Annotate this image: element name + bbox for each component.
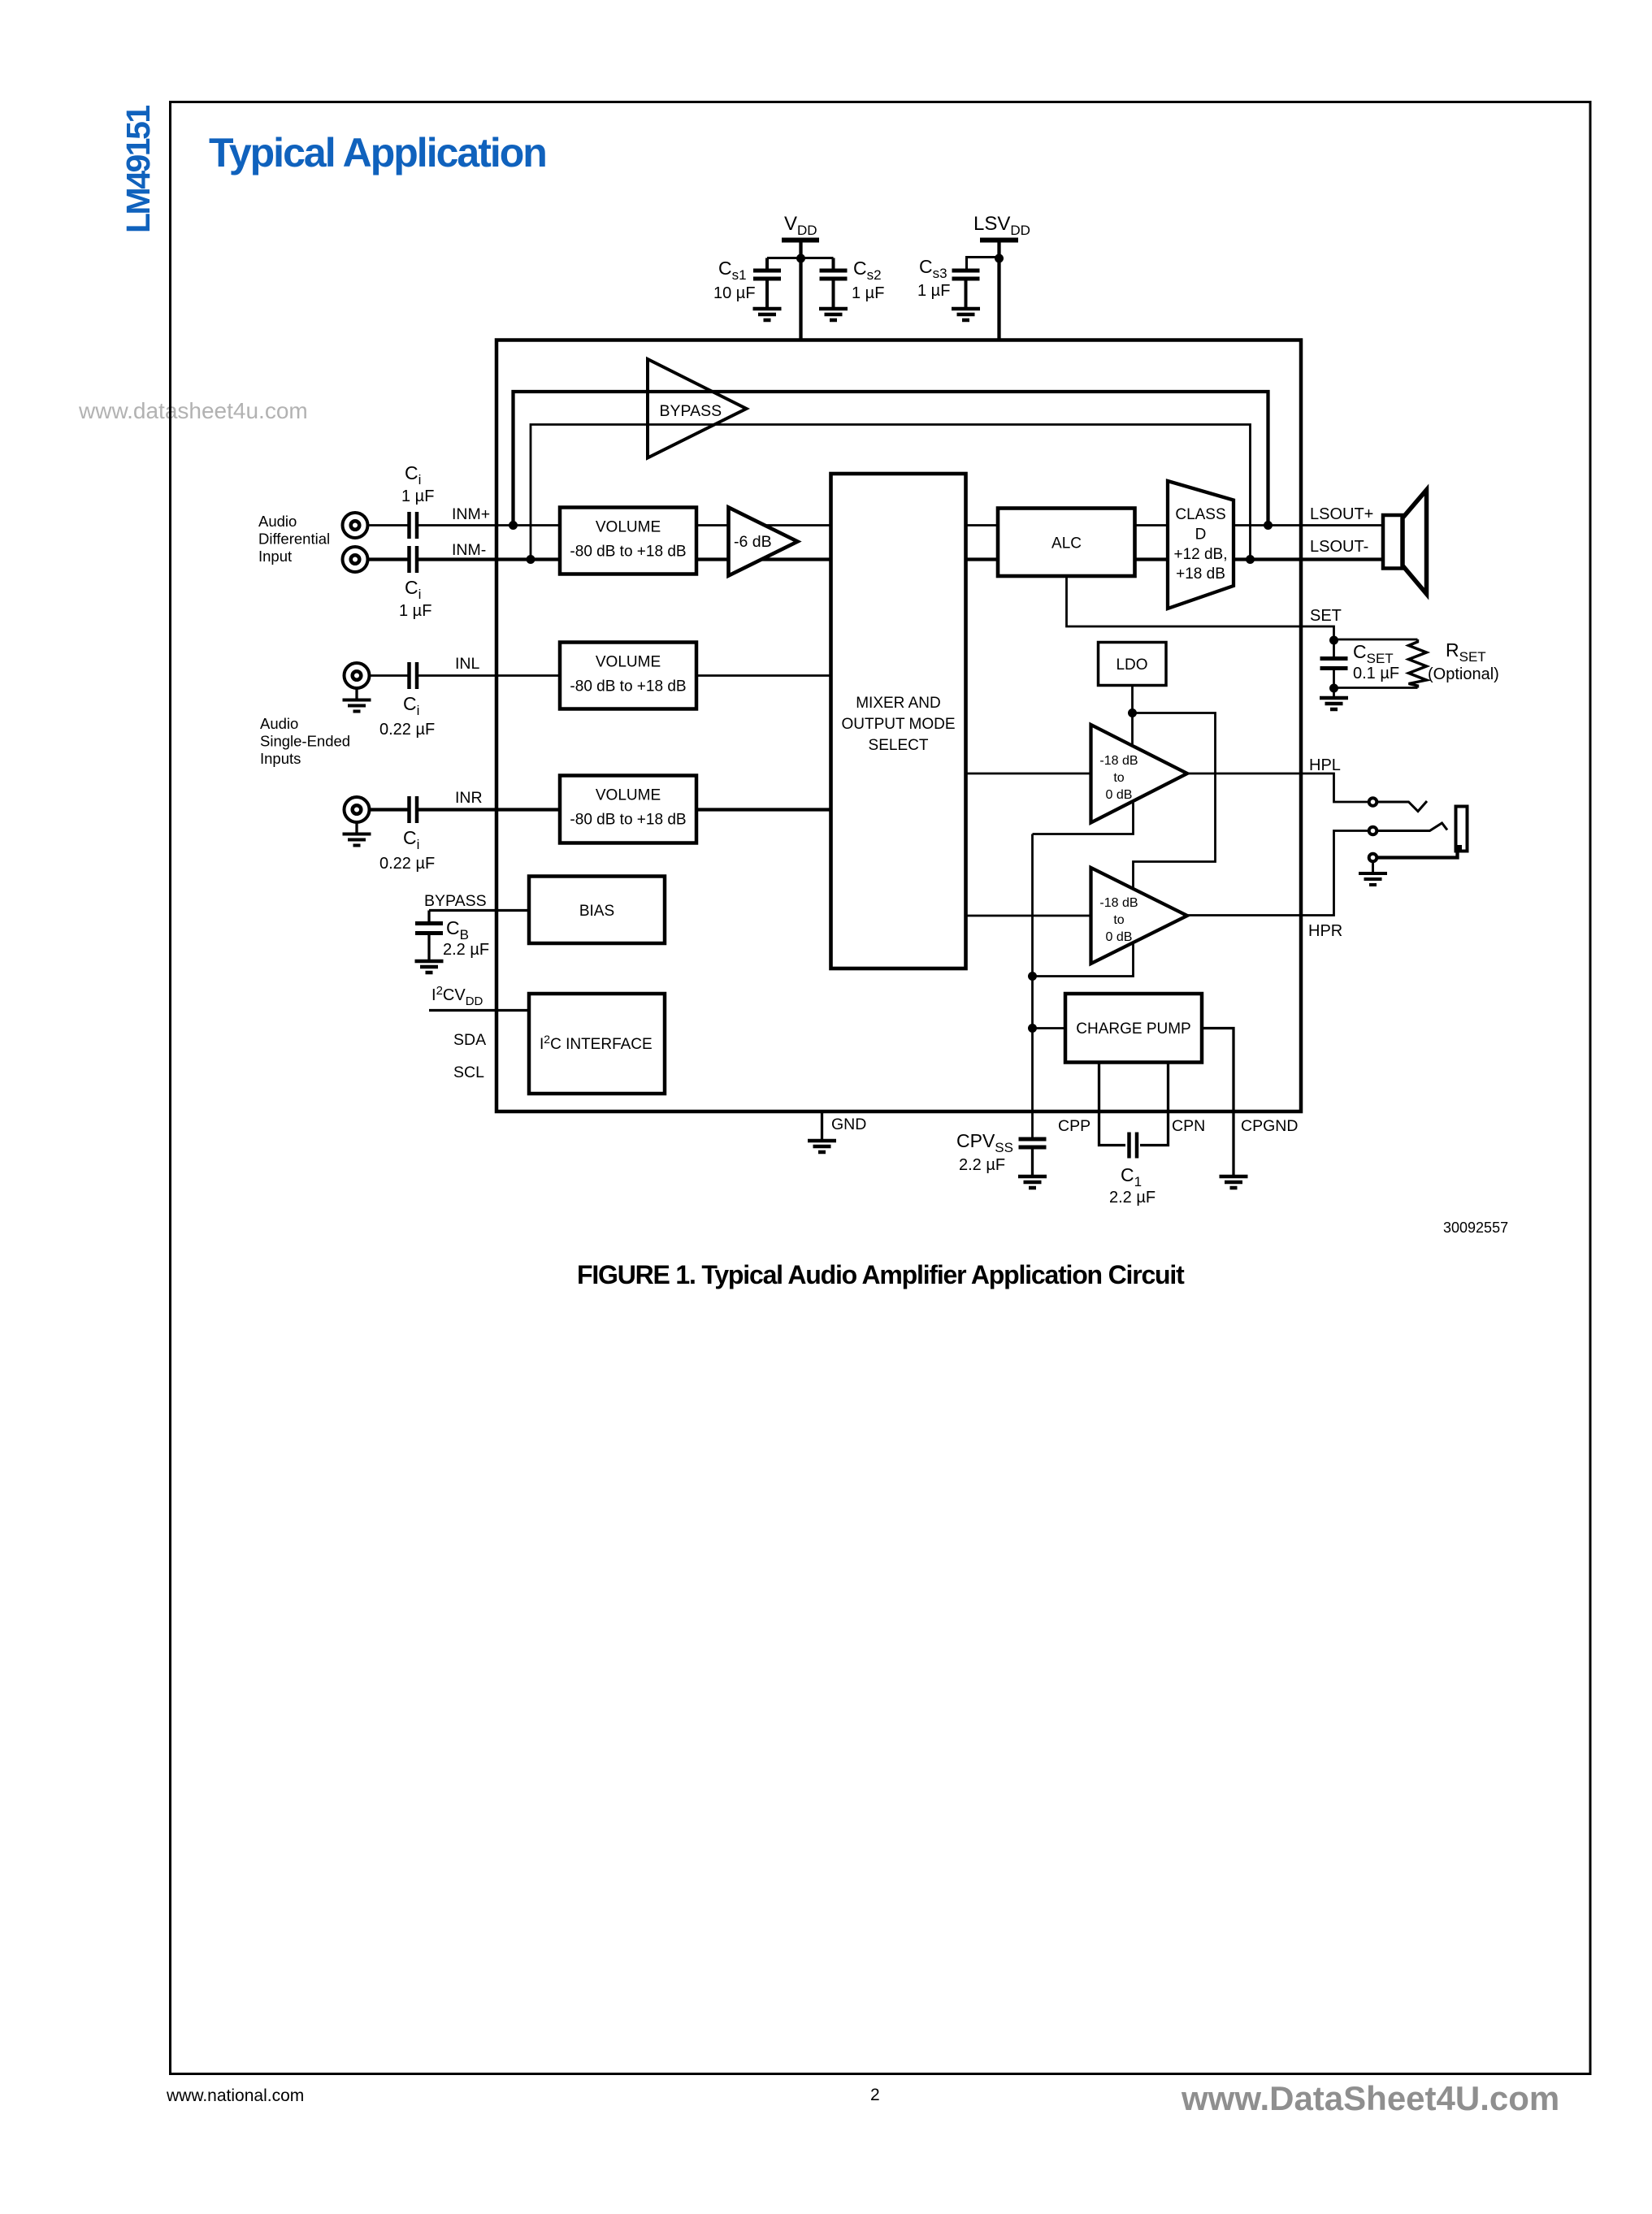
junction dot LSOUT- feedback [1246, 555, 1255, 564]
value 2.2 uF C1 [1109, 1189, 1156, 1207]
svg-text:D: D [1195, 526, 1207, 544]
svg-text:1 µF: 1 µF [852, 284, 884, 302]
connector RCA INR [345, 797, 370, 822]
junction dot LDO [1128, 708, 1137, 717]
svg-text:ALC: ALC [1051, 535, 1082, 552]
junction dot VDD [796, 254, 805, 263]
svg-text:CB: CB [446, 917, 469, 942]
svg-text:C1: C1 [1121, 1164, 1142, 1189]
svg-text:Input: Input [258, 548, 292, 565]
svg-text:Cs1: Cs1 [718, 258, 747, 283]
figure id 30092557 [1443, 1220, 1508, 1236]
svg-text:-18 dB: -18 dB [1099, 754, 1138, 768]
resistor RSET [1409, 639, 1427, 688]
junction dot LSVDD [995, 254, 1004, 263]
wire LDO supply to HPL amp [1131, 713, 1134, 745]
pin label LSOUT+ [1310, 505, 1373, 523]
wire LDO supply loop to HPR amp [1133, 713, 1216, 890]
label audio single-ended inputs [260, 715, 350, 767]
value 1 uF Ci INM+ [401, 487, 434, 505]
capacitor Ci INL [410, 662, 418, 689]
power symbol LSVDD bar [980, 238, 1018, 243]
svg-text:www.DataSheet4U.com: www.DataSheet4U.com [1181, 2079, 1559, 2117]
svg-text:CSET: CSET [1353, 641, 1394, 666]
wire INR input [370, 808, 408, 811]
pin label CPN [1172, 1117, 1205, 1135]
pin label INR [455, 789, 483, 807]
watermark www.datasheet4u.com [78, 398, 308, 423]
svg-text:OUTPUT MODE: OUTPUT MODE [841, 716, 955, 733]
value 1 uF Ci INM- [399, 602, 431, 620]
junction dot SET top [1329, 636, 1338, 645]
svg-text:10 µF: 10 µF [713, 284, 756, 302]
pin label CPGND [1241, 1117, 1298, 1135]
label Ci INR [403, 827, 419, 852]
amplifier HPL -18dB to 0dB [1091, 725, 1188, 823]
pin label INM+ [452, 505, 490, 523]
svg-text:Audio: Audio [260, 715, 298, 732]
svg-text:BYPASS: BYPASS [424, 892, 487, 910]
svg-text:0.1 µF: 0.1 µF [1353, 665, 1399, 682]
label audio differential input [258, 513, 330, 565]
block VOLUME INL [560, 643, 696, 709]
wire jack sleeve [1377, 849, 1458, 858]
wire VDD stem [799, 240, 802, 340]
pin label INL [455, 655, 480, 673]
block I2C INTERFACE [529, 994, 665, 1094]
wire INM- to volume [418, 557, 560, 561]
svg-text:(Optional): (Optional) [1428, 665, 1499, 683]
svg-text:INM+: INM+ [452, 505, 490, 523]
svg-text:SET: SET [1310, 607, 1342, 625]
value 0.1 uF [1353, 665, 1399, 682]
svg-text:30092557: 30092557 [1443, 1220, 1508, 1236]
svg-text:Ci: Ci [405, 577, 421, 602]
capacitor CPVSS [1019, 1139, 1047, 1176]
wire HPR output [1187, 831, 1369, 916]
wire INM+ input [368, 524, 408, 526]
svg-text:Ci: Ci [403, 827, 419, 852]
svg-text:BYPASS: BYPASS [660, 402, 722, 420]
junction dot INM+ riser [509, 521, 518, 530]
ground INL connector [343, 688, 371, 712]
capacitor Cs2 [820, 258, 848, 310]
pin label BYPASS [424, 892, 487, 910]
svg-text:Inputs: Inputs [260, 750, 301, 767]
svg-text:INL: INL [455, 655, 480, 673]
connector RCA INM- [343, 547, 368, 572]
junction dot CPVSS riser upper [1028, 972, 1037, 981]
svg-text:CPVSS: CPVSS [956, 1130, 1013, 1155]
wire mixer to HPL amp [966, 773, 1091, 775]
junction dot SET bottom [1329, 684, 1338, 693]
pin label INM- [452, 541, 486, 559]
block VOLUME INR [560, 776, 696, 843]
svg-text:0 dB: 0 dB [1106, 788, 1133, 802]
pin label I2CVDD [431, 984, 483, 1008]
svg-text:SCL: SCL [453, 1064, 484, 1081]
wire CSET bottom to RSET bottom [1334, 687, 1418, 689]
svg-text:Ci: Ci [403, 693, 419, 718]
wire volume2 to mixer [696, 674, 831, 677]
speaker LS [1383, 490, 1427, 594]
label RSET [1446, 639, 1486, 665]
svg-text:2.2 µF: 2.2 µF [443, 941, 489, 959]
junction dot CPVSS riser lower [1028, 1024, 1037, 1033]
label VDD [784, 213, 817, 238]
amplifier HPR -18dB to 0dB [1091, 868, 1188, 964]
svg-text:LDO: LDO [1116, 656, 1147, 674]
capacitor C1 [1130, 1133, 1138, 1159]
svg-text:INM-: INM- [452, 541, 486, 559]
ground INR connector [343, 822, 371, 846]
svg-text:0.22 µF: 0.22 µF [379, 855, 435, 873]
jack tip contact [1369, 798, 1377, 806]
jack sleeve contact [1369, 854, 1377, 862]
svg-text:-6 dB: -6 dB [734, 533, 772, 551]
wire SET to RSET top [1334, 639, 1418, 641]
wire volume1 to -6dB amp (INM+) [696, 524, 831, 526]
wire LSVDD rail to Cs3 [967, 258, 999, 272]
wire ALC to SET pin [1067, 576, 1334, 640]
label Ci INM- [405, 577, 421, 602]
svg-text:LM49151: LM49151 [119, 106, 157, 233]
svg-text:0 dB: 0 dB [1106, 930, 1133, 944]
svg-text:to: to [1113, 771, 1124, 785]
ground CB [415, 961, 444, 973]
svg-text:-80 dB to +18 dB: -80 dB to +18 dB [570, 544, 686, 561]
block LDO [1099, 643, 1167, 686]
power symbol VDD bar [782, 238, 819, 243]
ground CPVSS [1018, 1176, 1047, 1188]
svg-text:2: 2 [870, 2086, 880, 2104]
label Optional [1428, 665, 1499, 683]
svg-text:CHARGE PUMP: CHARGE PUMP [1076, 1020, 1190, 1038]
wire mixer to ALC (+) [966, 524, 999, 526]
wire bypass feedback from INM+ to LSOUT+ [514, 392, 1268, 526]
wire volume3 to mixer [696, 808, 831, 811]
wire INR to volume [418, 808, 560, 811]
svg-text:-18 dB: -18 dB [1099, 896, 1138, 910]
svg-text:VOLUME: VOLUME [596, 654, 661, 671]
footer page number [870, 2086, 880, 2104]
value 0.22 uF INL [379, 721, 435, 739]
svg-text:I2C INTERFACE: I2C INTERFACE [540, 1033, 653, 1053]
title Typical Application [209, 130, 546, 175]
wire INL input [370, 674, 408, 677]
wire BYPASS pin to BIAS [429, 909, 529, 912]
pin label CPP [1058, 1117, 1090, 1135]
svg-text:GND: GND [831, 1116, 866, 1133]
svg-text:CPP: CPP [1058, 1117, 1090, 1135]
wire CPN pin [1140, 1063, 1169, 1146]
jack ring switch [1377, 823, 1447, 831]
capacitor Ci INR [410, 796, 418, 823]
wire HPR amp bottom tap [1033, 943, 1134, 977]
value 1 uF Cs2 [852, 284, 884, 302]
label Ci INM+ [405, 462, 421, 487]
svg-text:www.datasheet4u.com: www.datasheet4u.com [78, 398, 308, 423]
wire mixer to HPR amp [966, 915, 1091, 917]
pin label HPR [1308, 922, 1342, 940]
wire CPP pin [1099, 1063, 1126, 1146]
value 10 uF [713, 284, 756, 302]
svg-text:+12 dB,: +12 dB, [1173, 546, 1227, 563]
capacitor Cs3 [952, 271, 980, 309]
block ALC [998, 509, 1135, 577]
svg-text:1 µF: 1 µF [917, 282, 950, 300]
label Cs3 [919, 256, 947, 281]
ground Cs2 [819, 309, 848, 320]
svg-text:LSOUT-: LSOUT- [1310, 538, 1368, 556]
svg-text:I2CVDD: I2CVDD [431, 984, 483, 1008]
wire HPL output [1187, 773, 1369, 802]
label Cs2 [853, 258, 882, 283]
jack ring contact [1369, 827, 1377, 835]
label LSVDD [973, 213, 1030, 238]
wire HPL amp bottom tap [1033, 803, 1134, 834]
svg-text:Single-Ended: Single-Ended [260, 733, 350, 750]
svg-text:Cs2: Cs2 [853, 258, 882, 283]
wire INM- input [368, 557, 408, 561]
svg-text:2.2 µF: 2.2 µF [959, 1156, 1005, 1174]
svg-text:CLASS: CLASS [1175, 506, 1225, 523]
block BIAS [529, 877, 665, 944]
ground jack sleeve [1359, 861, 1387, 885]
capacitor CSET [1320, 640, 1348, 689]
junction dot LSOUT+ feedback [1264, 521, 1273, 530]
ground GND pin [808, 1111, 836, 1152]
label Ci INL [403, 693, 419, 718]
svg-text:LSOUT+: LSOUT+ [1310, 505, 1373, 523]
wire INM+ to volume [418, 524, 560, 526]
svg-text:VDD: VDD [784, 213, 817, 238]
svg-text:SDA: SDA [453, 1031, 486, 1049]
page border frame [171, 102, 1591, 2074]
label C1 [1121, 1164, 1142, 1189]
ground CPGND [1220, 1176, 1248, 1188]
svg-text:to: to [1113, 913, 1124, 927]
ground Cs3 [952, 309, 980, 320]
wire LSVDD stem [997, 240, 1000, 340]
connector RCA INL [345, 663, 370, 688]
block CHARGE PUMP [1065, 994, 1202, 1063]
svg-text:CPN: CPN [1172, 1117, 1205, 1135]
svg-text:Cs3: Cs3 [919, 256, 947, 281]
svg-text:HPL: HPL [1309, 756, 1341, 774]
label CB [446, 917, 469, 942]
wire LDO stem [1131, 686, 1134, 713]
capacitor Cs1 [753, 258, 781, 310]
wire LSOUT- [1234, 557, 1384, 561]
wire I2CVDD pin [429, 1009, 529, 1012]
capacitor Ci INM- [410, 546, 418, 573]
wire CPVSS riser to charge pump [1033, 1027, 1066, 1029]
capacitor Ci INM+ [410, 512, 418, 539]
value 0.22 uF INR [379, 855, 435, 873]
svg-text:www.national.com: www.national.com [166, 2086, 304, 2105]
wire mixer to ALC (-) [966, 557, 999, 561]
svg-text:BIAS: BIAS [579, 903, 614, 920]
ground CSET [1320, 688, 1348, 709]
IC block outline [496, 340, 1301, 1112]
pin label GND [831, 1116, 866, 1133]
svg-text:1 µF: 1 µF [401, 487, 434, 505]
svg-text:+18 dB: +18 dB [1176, 565, 1225, 583]
svg-text:2.2 µF: 2.2 µF [1109, 1189, 1156, 1207]
value 1 uF Cs3 [917, 282, 950, 300]
junction dot INM- riser [527, 555, 535, 564]
svg-text:HPR: HPR [1308, 922, 1342, 940]
svg-text:-80 dB to +18 dB: -80 dB to +18 dB [570, 678, 686, 695]
block MIXER AND OUTPUT MODE SELECT [831, 474, 966, 968]
caption FIGURE 1 [577, 1260, 1185, 1289]
svg-text:1 µF: 1 µF [399, 602, 431, 620]
svg-text:MIXER AND: MIXER AND [856, 695, 941, 712]
pin label LSOUT- [1310, 538, 1368, 556]
svg-text:SELECT: SELECT [869, 737, 929, 754]
block VOLUME differential [560, 508, 696, 574]
svg-text:Ci: Ci [405, 462, 421, 487]
connector RCA INM+ [343, 513, 368, 538]
svg-text:VOLUME: VOLUME [596, 519, 661, 536]
pin label SDA [453, 1031, 486, 1049]
pin label HPL [1309, 756, 1341, 774]
pin label SCL [453, 1064, 484, 1081]
label CSET [1353, 641, 1394, 666]
amplifier BYPASS [648, 359, 747, 458]
value 2.2 uF CB [443, 941, 489, 959]
svg-text:Differential: Differential [258, 531, 330, 548]
capacitor CB [415, 911, 443, 962]
wire CPVSS riser [1031, 834, 1034, 1141]
svg-text:RSET: RSET [1446, 639, 1486, 665]
wire INL to volume [418, 674, 560, 677]
svg-text:0.22 µF: 0.22 µF [379, 721, 435, 739]
wire CPGND [1202, 1029, 1234, 1177]
wire ALC to Class D (-) [1135, 557, 1169, 561]
label CPVSS [956, 1130, 1013, 1155]
wire LSOUT+ [1234, 524, 1384, 526]
value 2.2 uF CPVSS [959, 1156, 1005, 1174]
svg-text:VOLUME: VOLUME [596, 787, 661, 804]
wire bypass feedback from INM- to LSOUT- [531, 425, 1251, 560]
amplifier CLASS D [1168, 481, 1234, 609]
footer watermark DataSheet4U [1181, 2079, 1559, 2117]
jack tip switch [1377, 801, 1427, 812]
pin label SET [1310, 607, 1342, 625]
svg-text:CPGND: CPGND [1241, 1117, 1298, 1135]
wire ALC to Class D (+) [1135, 524, 1169, 526]
svg-text:Audio: Audio [258, 513, 297, 530]
wire VDD rail to decoupling caps [767, 257, 834, 259]
label Cs1 [718, 258, 747, 283]
svg-text:INR: INR [455, 789, 483, 807]
footer www.national.com [166, 2086, 304, 2105]
wire volume1 to mixer (INM-) [696, 557, 831, 561]
sidebar part number LM49151 [119, 106, 157, 233]
headphone jack body [1456, 807, 1468, 851]
svg-text:FIGURE 1. Typical Audio Amplif: FIGURE 1. Typical Audio Amplifier Applic… [577, 1260, 1185, 1289]
svg-text:Typical Application: Typical Application [209, 130, 546, 175]
svg-text:-80 dB to +18 dB: -80 dB to +18 dB [570, 812, 686, 829]
svg-text:LSVDD: LSVDD [973, 213, 1030, 238]
ground Cs1 [753, 309, 782, 320]
amplifier -6 dB [729, 508, 798, 576]
